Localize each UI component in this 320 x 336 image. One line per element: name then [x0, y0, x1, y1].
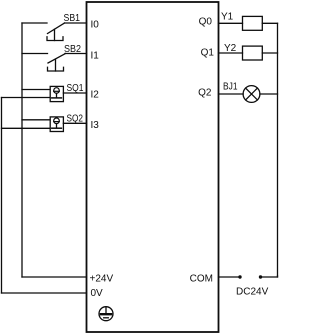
wire: SB2 to I1 [65, 53, 87, 55]
svg-text:Q1: Q1 [201, 47, 215, 58]
wire: DC24V to right bus [261, 276, 278, 277]
svg-text:Y1: Y1 [221, 11, 234, 22]
wire: Q1 to Y2 [219, 52, 243, 54]
svg-text:SB1: SB1 [64, 13, 81, 24]
wire: Y2 to right bus [262, 52, 277, 54]
wire: Q2 to BJ1 [219, 93, 244, 95]
wire: inner left bus [21, 23, 23, 277]
wire: +24V [22, 276, 87, 278]
svg-text:I1: I1 [91, 51, 100, 62]
svg-text:DC24V: DC24V [236, 287, 269, 298]
svg-text:COM: COM [190, 274, 213, 285]
PLC box [87, 2, 219, 332]
svg-text:I0: I0 [91, 20, 100, 31]
svg-text:0V: 0V [91, 288, 104, 299]
wire: SQ1 upper left [22, 89, 50, 91]
ground (protective earth) [99, 307, 113, 321]
limit switch SQ1 [50, 86, 63, 101]
node: DC24V junction dot [259, 275, 262, 278]
wire: SQ1 lower left [2, 97, 51, 99]
wire: SQ1 to I2 [63, 92, 86, 94]
wire: Y1 to right bus [262, 22, 277, 24]
wire: SQ2 to I3 [63, 122, 86, 124]
svg-text:Y2: Y2 [224, 43, 237, 54]
svg-text:I3: I3 [91, 120, 100, 131]
wire: COM terminal [219, 276, 241, 278]
wire: SB2 left [22, 53, 48, 55]
wire: SQ2 upper left [22, 119, 50, 121]
wire: Q0 to Y1 [219, 22, 243, 24]
limit switch SQ2 [50, 117, 63, 132]
coil Y2 [243, 46, 263, 60]
wire: SB1 left [22, 22, 47, 24]
svg-text:Q2: Q2 [198, 88, 212, 99]
svg-text:SQ2: SQ2 [67, 114, 84, 125]
svg-text:+24V: +24V [90, 274, 114, 285]
coil Y1 [243, 16, 263, 30]
svg-text:SB2: SB2 [64, 44, 81, 55]
wire: right bus [277, 23, 279, 277]
svg-text:I2: I2 [91, 89, 100, 100]
wire: 0V [2, 292, 87, 294]
wire: BJ1 to right bus [260, 93, 278, 95]
pushbutton SB1 [47, 23, 65, 41]
wire: SQ2 lower left [2, 127, 51, 129]
svg-text:Q0: Q0 [199, 17, 213, 28]
node: COM junction dot [238, 275, 241, 278]
lamp BJ1 [243, 86, 260, 103]
wire: SB1 to I0 [65, 22, 87, 24]
svg-text:BJ1: BJ1 [223, 82, 238, 93]
pushbutton SB2 [48, 54, 66, 72]
svg-text:SQ1: SQ1 [67, 83, 84, 94]
wire: outer left bus [1, 98, 3, 294]
